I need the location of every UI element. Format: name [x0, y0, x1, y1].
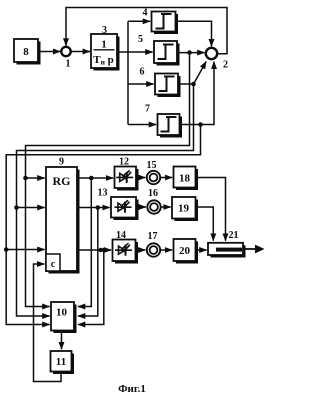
svg-text:2: 2: [223, 60, 228, 71]
svg-text:7: 7: [145, 104, 150, 115]
svg-text:21: 21: [229, 230, 239, 241]
svg-text:11: 11: [56, 356, 66, 368]
svg-text:13: 13: [98, 188, 108, 199]
svg-text:1: 1: [101, 39, 107, 51]
svg-text:14: 14: [116, 230, 126, 241]
svg-text:12: 12: [119, 157, 129, 168]
svg-text:9: 9: [59, 157, 64, 168]
svg-text:RG: RG: [53, 174, 71, 188]
svg-text:1: 1: [66, 59, 71, 70]
svg-text:18: 18: [179, 173, 191, 185]
svg-text:17: 17: [148, 231, 158, 242]
svg-text:8: 8: [23, 46, 29, 58]
svg-text:20: 20: [179, 245, 191, 257]
svg-text:4: 4: [143, 8, 148, 19]
svg-text:c: c: [51, 259, 56, 270]
svg-text:6: 6: [140, 67, 145, 78]
svg-text:10: 10: [56, 307, 68, 319]
svg-text:16: 16: [148, 188, 158, 199]
svg-text:19: 19: [178, 203, 190, 215]
svg-text:Фиг.1: Фиг.1: [118, 383, 146, 395]
svg-text:15: 15: [147, 160, 157, 171]
svg-text:5: 5: [138, 34, 143, 45]
svg-text:3: 3: [102, 25, 107, 36]
